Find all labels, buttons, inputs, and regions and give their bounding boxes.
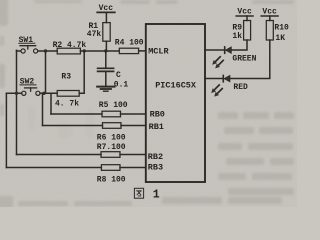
caption 图 1 (hand-drawn CJK glyph) [134,188,143,198]
svg-text:MCLR: MCLR [148,46,169,56]
wire: SW2 left lead to far-left bus [6,92,21,94]
power Vcc (left) [97,12,115,22]
wire: R7 to RB2 [120,154,146,156]
svg-text:Vcc: Vcc [99,4,114,13]
svg-text:R6 100: R6 100 [97,133,126,142]
resistor R8 [101,165,120,171]
svg-text:1K: 1K [275,34,285,43]
svg-text:Vcc: Vcc [262,8,277,17]
resistor R2 [57,48,80,54]
wire: GREEN LED to R9 [231,40,247,50]
node: junction SW1/R5R6 bus [44,49,47,52]
svg-text:RB1: RB1 [149,122,164,132]
wire: R2 right to R4 (main reset row) [80,50,119,52]
resistor R3 [57,91,79,97]
wire: R1 bottom lead [105,41,107,51]
wire: R5 row [51,113,102,115]
svg-text:47k: 47k [87,30,102,39]
node: junction R2/R3 vertical [83,49,86,52]
wire: vertical x=42.5 SW2 node down to R6 row [43,93,45,125]
svg-text:PIC16C5X: PIC16C5X [155,80,197,90]
label SW1 (underlined) [19,36,34,45]
svg-text:RED: RED [233,83,248,92]
wire: SW2 right lead to R3 [40,92,57,94]
LED D1 GREEN [212,47,231,69]
svg-text:R7.100: R7.100 [97,143,126,152]
resistor R4 [119,48,138,53]
svg-text:1k: 1k [232,32,242,41]
svg-text:R3: R3 [61,73,71,82]
svg-text:0.1: 0.1 [114,81,129,90]
wire: R8 to RB3 [120,167,146,169]
svg-text:1: 1 [153,188,160,201]
wire: RED LED row from chip [205,78,223,80]
resistor R10 [266,21,273,41]
wire: SW1 right lead to R2 [38,50,57,52]
capacitor C [98,51,114,86]
IC U1 PIC16C5X [146,24,205,182]
wire: SW1 left lead [17,50,21,52]
svg-text:C: C [116,71,121,80]
svg-text:GREEN: GREEN [232,54,256,63]
resistor R1 [103,23,110,42]
wire: GREEN LED row from chip [205,49,224,51]
svg-text:R10: R10 [274,23,289,32]
wire: vertical x=45.5 SW1 row to SW2 row [45,51,47,93]
wire: R4 to MCLR pin [139,50,146,52]
bleed-through noise blobs [0,0,294,208]
power Vcc (R9) [236,16,253,21]
node: junction R1/C [104,49,107,52]
svg-text:4. 7k: 4. 7k [55,99,79,108]
svg-text:R2 4.7k: R2 4.7k [53,41,87,50]
wire: far-left bus x=6.4 down to R8 row [5,93,7,167]
ground [97,87,114,92]
wire: vertical x=84.2 down to R3 right [79,51,84,93]
switch SW2 [22,88,40,96]
wire: R5 to RB0 [121,113,146,115]
wire: R7 row [17,154,102,156]
resistor R6 [103,123,122,129]
svg-text:RB0: RB0 [150,109,165,119]
resistor R5 [102,111,121,117]
wire: vertical x=51 SW2 row down to R5 row [50,93,52,114]
svg-text:Vcc: Vcc [237,8,252,17]
wire: left vertical bus x=16.5 (SW1 left down to R7 row) [16,50,18,154]
wire: RED LED to R10 [230,40,270,79]
wire: R6 row [43,125,103,127]
svg-text:R4 100: R4 100 [115,39,144,48]
resistor R9 [244,21,251,41]
node: junction SW2 row / x16.5 bus [15,92,18,95]
node: junction SW2 right / R5 R6 verticals [42,92,45,95]
svg-text:R8 100: R8 100 [97,175,126,184]
label SW2 (underlined) [20,78,35,87]
LED D2 RED [211,75,230,96]
resistor R7 [101,152,120,158]
switch SW1 [20,46,38,53]
power Vcc (R10) [261,16,278,21]
wire: R8 row [6,167,101,169]
label R2 4.7k [53,41,87,50]
svg-text:RB2: RB2 [148,152,163,162]
svg-text:RB3: RB3 [148,163,163,173]
wire: R6 to RB1 [121,125,146,127]
svg-text:R5 100: R5 100 [99,101,128,110]
